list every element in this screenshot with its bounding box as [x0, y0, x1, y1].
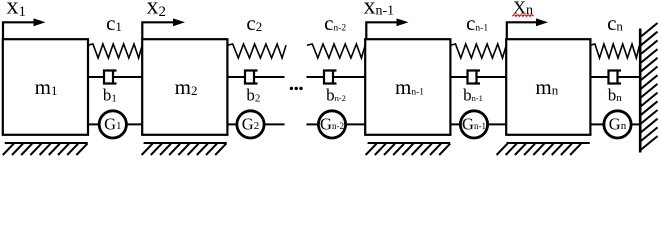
svg-text:xn-1: xn-1: [364, 0, 395, 20]
svg-text:x2: x2: [147, 0, 167, 20]
svg-text:x1: x1: [7, 0, 27, 20]
